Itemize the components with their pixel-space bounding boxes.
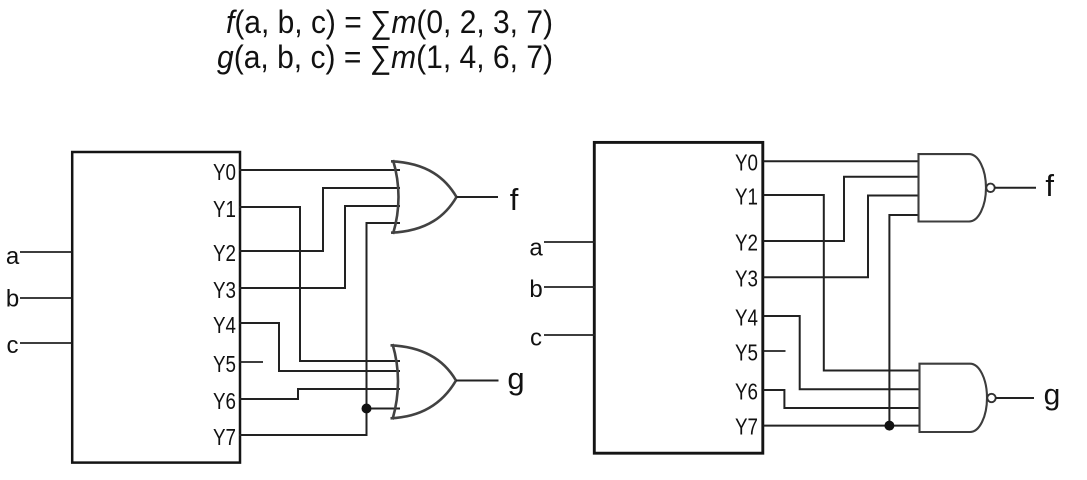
svg-text:Y5: Y5 <box>213 351 236 377</box>
svg-text:Y1: Y1 <box>213 196 236 222</box>
svg-text:Y7: Y7 <box>735 414 758 440</box>
svg-text:g: g <box>1044 379 1061 412</box>
bubble NAND1 <box>986 184 994 192</box>
svg-text:Y2: Y2 <box>213 240 236 266</box>
wire Y4 to OR2 input2 <box>239 323 400 371</box>
svg-text:b: b <box>529 276 542 303</box>
wire Y6 to NAND2 input3 <box>764 390 920 408</box>
svg-text:g(a, b, c) = ∑m(1, 4, 6, 7): g(a, b, c) = ∑m(1, 4, 6, 7) <box>217 39 553 75</box>
wire Y3 to NAND1 input3 <box>764 196 919 278</box>
wire Y2 to NAND1 input2 <box>764 177 919 241</box>
wire a to U2 <box>544 241 595 243</box>
wire Y7 to NAND2 input4 <box>764 425 920 427</box>
svg-text:Y7: Y7 <box>213 424 236 450</box>
wire Y7 to OR1 input4 <box>239 223 400 435</box>
wire Y4 to NAND2 input2 <box>764 316 920 389</box>
svg-text:Y5: Y5 <box>735 340 758 366</box>
svg-text:Y6: Y6 <box>213 388 236 414</box>
wire Y7 branch to OR2 input4 <box>367 408 401 410</box>
decoder U1 (left 3-to-8 decoder box) <box>72 152 240 463</box>
or-gate OR1 (f) <box>391 160 457 234</box>
junction dot Y7 (right) <box>884 421 894 431</box>
wire Y5 stub <box>239 361 263 363</box>
svg-text:Y4: Y4 <box>213 312 236 338</box>
wire Y5 stub (right) <box>764 350 786 352</box>
nand-gate NAND2 (g) <box>920 364 988 432</box>
svg-text:Y4: Y4 <box>735 305 758 331</box>
svg-text:Y2: Y2 <box>735 230 758 256</box>
svg-text:Y0: Y0 <box>735 150 758 176</box>
wire Y1 to OR2 input1 <box>239 207 400 361</box>
wire NAND1 output f <box>995 187 1037 189</box>
wire Y2 to OR1 input2 <box>239 188 400 251</box>
svg-text:f: f <box>1045 168 1054 203</box>
wire Y1 to NAND2 input1 <box>764 195 920 371</box>
or-gate OR2 (g) <box>391 344 457 420</box>
wire OR1 output f <box>457 196 499 198</box>
bubble NAND2 <box>987 394 995 402</box>
svg-text:f(a, b, c) = ∑m(0, 2, 3, 7): f(a, b, c) = ∑m(0, 2, 3, 7) <box>226 4 553 40</box>
wire c to U1 <box>20 342 72 344</box>
svg-text:f: f <box>510 182 519 217</box>
svg-text:Y1: Y1 <box>735 184 758 210</box>
svg-text:c: c <box>7 332 19 359</box>
wire Y6 to OR2 input3 <box>239 389 400 399</box>
svg-text:Y6: Y6 <box>735 379 758 405</box>
wire b to U1 <box>20 297 72 299</box>
svg-text:Y0: Y0 <box>213 159 236 185</box>
wire c to U2 <box>544 334 595 336</box>
svg-text:b: b <box>6 286 19 313</box>
wire Y0 to NAND1 input1 <box>764 160 919 162</box>
wire Y7 branch to NAND1 input4 <box>889 215 918 426</box>
wire a to U1 <box>20 251 72 253</box>
svg-text:c: c <box>530 325 542 352</box>
wire Y0 to OR1 input1 <box>239 169 400 171</box>
wire Y3 to OR1 input3 <box>239 206 400 288</box>
wire OR2 output g <box>456 380 499 382</box>
wire NAND2 output g <box>996 397 1034 399</box>
junction dot Y7 (left) <box>362 404 372 414</box>
svg-text:a: a <box>529 235 543 262</box>
nand-gate NAND1 (f) <box>919 154 986 221</box>
svg-text:a: a <box>6 243 20 270</box>
wire b to U2 <box>544 286 595 288</box>
svg-text:g: g <box>507 361 524 396</box>
svg-text:Y3: Y3 <box>213 277 236 303</box>
decoder U2 (right 3-to-8 decoder box) <box>594 142 763 453</box>
svg-text:Y3: Y3 <box>735 266 758 292</box>
